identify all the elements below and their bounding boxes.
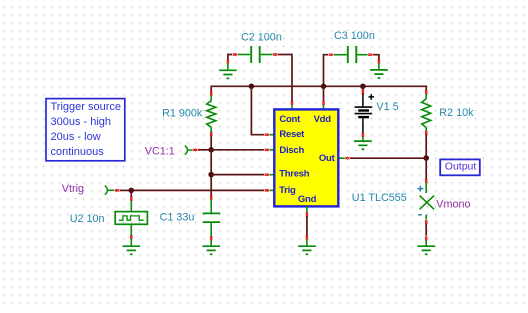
resistor R1 (207, 92, 216, 136)
node Trig junction (129, 188, 135, 194)
ground below C1 (202, 246, 220, 254)
wire Disch node to Thresh node (210, 150, 212, 175)
svg-text:V1 5: V1 5 (376, 101, 398, 113)
annotation box Output (440, 159, 480, 175)
wire Disch pin wire (211, 149, 274, 151)
wire R1 bottom to Disch node (210, 135, 212, 149)
svg-text:Out: Out (319, 153, 336, 164)
voltage probe VC1 arc (185, 146, 188, 155)
voltage source Vtrig arc (105, 186, 108, 195)
capacitor C1 (203, 196, 221, 247)
svg-text:C2 100n: C2 100n (241, 32, 282, 44)
svg-text:Reset: Reset (279, 129, 305, 140)
generator U2 square-wave source (115, 190, 147, 246)
node V1 junction (360, 84, 366, 90)
svg-text:Thresh: Thresh (279, 168, 310, 179)
wire VC1 stub to Disch node (188, 149, 212, 151)
wire Trig net to Trig pin (131, 189, 274, 191)
voltmeter Vmono (417, 179, 434, 246)
svg-text:Cont: Cont (279, 114, 301, 125)
wire C2 right to Cont pin (crosses rail) (278, 55, 292, 102)
svg-text:U1 TLC555: U1 TLC555 (352, 192, 407, 204)
battery V1 (355, 86, 374, 141)
op-amp U1 TLC555 body (274, 109, 338, 206)
wire R2 bottom to Out node (425, 135, 427, 159)
ground below V1 (354, 141, 372, 149)
node Thresh junction (208, 172, 214, 178)
pin Gnd stub and wire to ground (306, 206, 308, 246)
svg-text:Vmono: Vmono (436, 198, 470, 210)
svg-text:Vdd: Vdd (314, 114, 332, 125)
svg-text:R1 900k: R1 900k (162, 108, 203, 120)
wire Vdd rail (top horizontal net) (211, 85, 426, 87)
ground below U1 (298, 246, 316, 254)
svg-text:U2 10n: U2 10n (70, 213, 105, 225)
ground below U2 (123, 246, 141, 254)
ground below Vmono (417, 246, 435, 254)
pin Vdd stub (322, 86, 324, 109)
wire Out pin to Out node (338, 157, 426, 159)
wire Thresh pin wire (211, 174, 274, 176)
svg-text:Gnd: Gnd (298, 194, 317, 205)
wire Vtrig stub to Trig node (108, 189, 132, 191)
wire C3 right lead corner to ground (373, 55, 380, 70)
capacitor C2 (227, 46, 277, 70)
svg-text:300us - high: 300us - high (51, 116, 112, 128)
svg-text:R2 10k: R2 10k (439, 107, 474, 119)
svg-text:continuous: continuous (51, 146, 105, 158)
capacitor C3 (323, 46, 372, 86)
node Disch junction (208, 147, 214, 153)
wire Thresh node down across Trig wire to C1 (210, 175, 212, 197)
svg-text:Output: Output (445, 160, 477, 172)
svg-text:20us - low: 20us - low (51, 131, 101, 143)
svg-text:C3 100n: C3 100n (334, 30, 375, 42)
ground below C3 (370, 70, 388, 78)
svg-text:Vtrig: Vtrig (62, 183, 84, 195)
svg-text:Trig: Trig (279, 185, 296, 196)
wire Out node down to Vmono (425, 158, 427, 179)
ground below C2 left lead (219, 70, 237, 78)
pin Cont stub (291, 101, 293, 109)
resistor R2 (422, 90, 431, 135)
wire Reset net from rail (249, 84, 275, 136)
svg-text:C1 33u: C1 33u (160, 212, 195, 224)
svg-text:Trigger source: Trigger source (51, 101, 122, 113)
svg-text:VC1:1: VC1:1 (145, 146, 175, 158)
node Vdd junction (321, 84, 327, 90)
wire R1 top lead from rail (210, 86, 212, 94)
node Out junction (423, 155, 429, 161)
wire rail right corner into R2 (425, 86, 427, 91)
annotation box Trigger source (46, 99, 125, 161)
svg-text:Disch: Disch (279, 145, 304, 156)
